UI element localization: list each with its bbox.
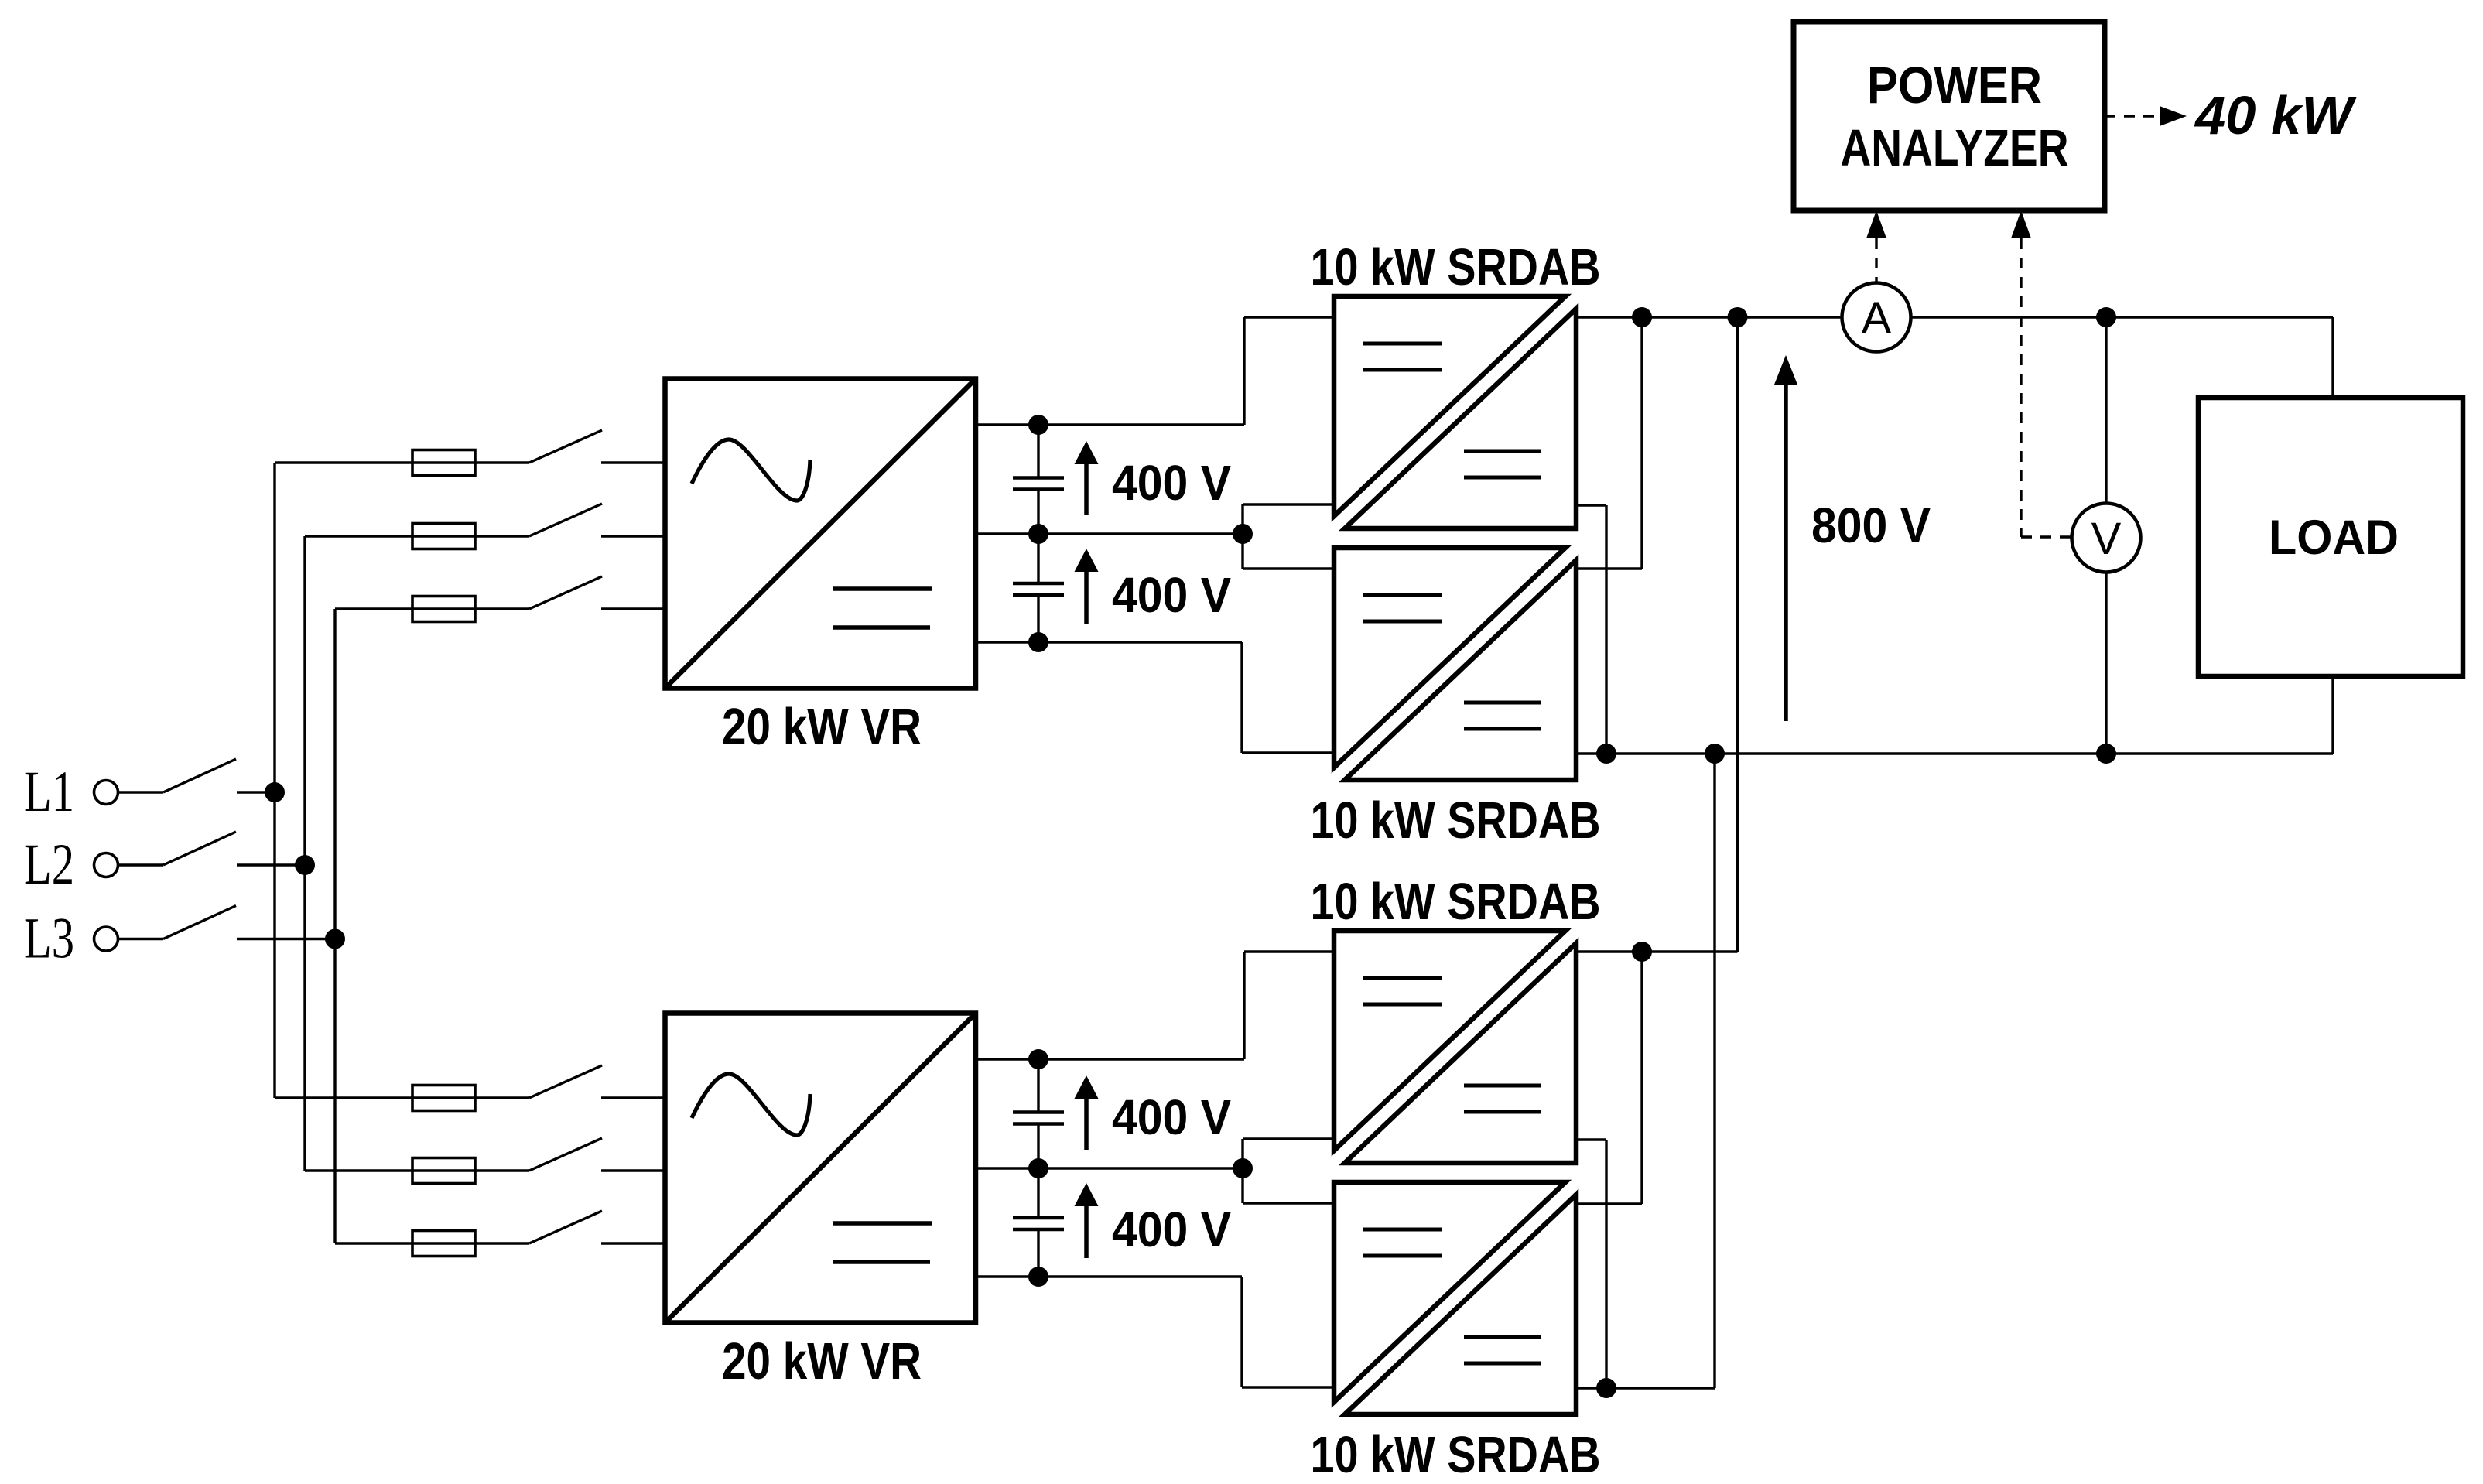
svg-text:20 kW VR: 20 kW VR [722,698,922,756]
svg-text:POWER: POWER [1867,56,2042,115]
svg-text:400 V: 400 V [1112,1202,1231,1257]
svg-text:10 kW SRDAB: 10 kW SRDAB [1311,238,1601,296]
svg-text:LOAD: LOAD [2269,511,2399,565]
svg-text:10 kW SRDAB: 10 kW SRDAB [1311,873,1601,931]
svg-text:ANALYZER: ANALYZER [1841,119,2069,177]
svg-text:L1: L1 [24,760,74,824]
svg-text:10 kW SRDAB: 10 kW SRDAB [1311,1426,1601,1480]
svg-text:40 kW: 40 kW [2194,85,2358,145]
svg-text:A: A [1862,293,1892,344]
svg-text:20 kW VR: 20 kW VR [722,1332,922,1390]
svg-text:400 V: 400 V [1112,1089,1231,1145]
svg-text:V: V [2091,514,2122,564]
svg-text:L2: L2 [24,833,74,897]
svg-text:800 V: 800 V [1811,498,1931,553]
svg-text:10 kW SRDAB: 10 kW SRDAB [1311,792,1601,850]
svg-text:400 V: 400 V [1112,567,1231,623]
svg-text:L3: L3 [24,907,74,971]
svg-text:400 V: 400 V [1112,455,1231,511]
